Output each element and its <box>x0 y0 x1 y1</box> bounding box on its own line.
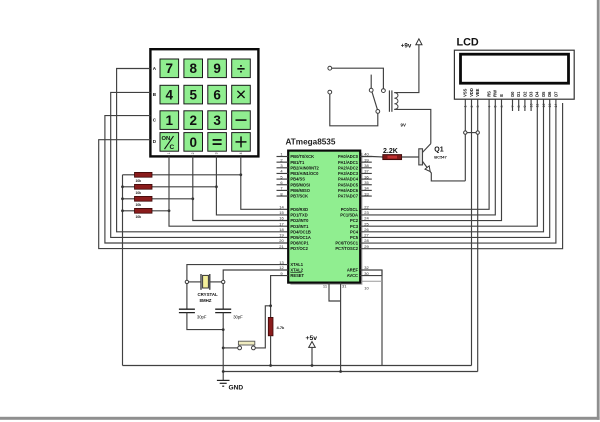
svg-text:10: 10 <box>364 286 369 291</box>
svg-text:RS: RS <box>487 91 492 97</box>
svg-text:38: 38 <box>364 163 369 168</box>
svg-text:VDD: VDD <box>469 88 474 97</box>
svg-text:15: 15 <box>279 210 284 215</box>
svg-text:21: 21 <box>279 244 284 249</box>
svg-text:30pF: 30pF <box>197 314 207 319</box>
svg-text:AVCC: AVCC <box>347 273 358 278</box>
svg-text:7: 7 <box>166 61 174 76</box>
svg-text:PD7/OC2: PD7/OC2 <box>290 246 308 251</box>
svg-text:PA0/ADC0: PA0/ADC0 <box>338 154 359 159</box>
svg-text:4.7k: 4.7k <box>277 325 286 330</box>
svg-text:30pF: 30pF <box>233 314 243 319</box>
svg-text:VEE: VEE <box>475 88 480 96</box>
svg-text:PB2/AIN0/INT2: PB2/AIN0/INT2 <box>290 165 319 170</box>
svg-text:÷: ÷ <box>237 61 245 77</box>
svg-text:PA6/ADC6: PA6/ADC6 <box>338 188 359 193</box>
svg-text:9V: 9V <box>401 122 406 127</box>
svg-text:+5v: +5v <box>306 335 318 342</box>
svg-text:PC6/TOSC1: PC6/TOSC1 <box>335 241 358 246</box>
svg-text:2: 2 <box>191 152 195 154</box>
svg-text:3: 3 <box>213 113 221 128</box>
svg-text:D5: D5 <box>541 91 546 97</box>
svg-text:1: 1 <box>166 113 174 128</box>
svg-text:XTAL1: XTAL1 <box>290 262 303 267</box>
svg-text:D4: D4 <box>535 91 540 97</box>
svg-text:D6: D6 <box>547 91 552 97</box>
svg-text:XTAL2: XTAL2 <box>290 268 303 273</box>
svg-text:✕: ✕ <box>235 87 247 103</box>
svg-text:18: 18 <box>279 227 284 232</box>
svg-text:PD0/RXD: PD0/RXD <box>290 207 308 212</box>
svg-text:GND: GND <box>229 384 244 391</box>
svg-text:PC4: PC4 <box>350 229 359 234</box>
svg-text:2: 2 <box>189 113 197 128</box>
svg-text:10k: 10k <box>136 179 142 183</box>
svg-text:PB3/AIN1/OC0: PB3/AIN1/OC0 <box>290 171 319 176</box>
svg-text:36: 36 <box>364 174 369 179</box>
svg-text:PA3/ADC3: PA3/ADC3 <box>338 171 359 176</box>
svg-text:39: 39 <box>364 157 369 162</box>
svg-text:LCD: LCD <box>457 36 479 48</box>
svg-text:PD2/INT0: PD2/INT0 <box>290 218 309 223</box>
svg-text:PA5/ADC5: PA5/ADC5 <box>338 182 359 187</box>
svg-text:PC5: PC5 <box>350 235 359 240</box>
svg-text:PB6/MISO: PB6/MISO <box>290 188 310 193</box>
svg-text:6: 6 <box>213 88 221 103</box>
svg-text:D2: D2 <box>522 91 527 97</box>
svg-text:PA2/ADC2: PA2/ADC2 <box>338 165 359 170</box>
svg-text:37: 37 <box>364 169 369 174</box>
svg-text:5: 5 <box>189 88 197 103</box>
svg-text:PD3/INT1: PD3/INT1 <box>290 224 309 229</box>
svg-text:D1: D1 <box>516 91 521 97</box>
svg-text:10k: 10k <box>136 191 142 195</box>
svg-text:PC1/SDA: PC1/SDA <box>340 213 358 218</box>
svg-text:3: 3 <box>215 152 219 154</box>
svg-text:PC0/SCL: PC0/SCL <box>341 207 359 212</box>
svg-text:RW: RW <box>493 90 498 97</box>
svg-text:RESET: RESET <box>290 273 304 278</box>
svg-text:PB5/MOSI: PB5/MOSI <box>290 182 310 187</box>
svg-text:17: 17 <box>279 221 284 226</box>
svg-text:PB7/SCK: PB7/SCK <box>290 194 308 199</box>
svg-text:PA7/ADC7: PA7/ADC7 <box>338 194 359 199</box>
svg-text:CRYSTAL: CRYSTAL <box>198 292 219 297</box>
svg-text:4: 4 <box>166 88 174 103</box>
svg-text:PC7/TOSC2: PC7/TOSC2 <box>335 246 358 251</box>
svg-text:ON: ON <box>162 136 171 142</box>
svg-text:10k: 10k <box>136 215 142 219</box>
svg-text:BC547: BC547 <box>434 155 447 160</box>
svg-text:AREF: AREF <box>347 268 359 273</box>
svg-text:14: 14 <box>279 205 284 210</box>
svg-text:20: 20 <box>279 238 284 243</box>
svg-text:9: 9 <box>213 61 221 76</box>
svg-text:PC3: PC3 <box>350 224 359 229</box>
svg-text:PA1/ADC1: PA1/ADC1 <box>338 160 359 165</box>
svg-text:PB4/SS: PB4/SS <box>290 177 305 182</box>
svg-text:Q1: Q1 <box>434 147 443 154</box>
svg-text:PA4/ADC4: PA4/ADC4 <box>338 177 359 182</box>
svg-text:8: 8 <box>189 61 197 76</box>
svg-text:33: 33 <box>364 191 369 196</box>
svg-text:C: C <box>170 144 175 151</box>
svg-text:PD4/OC1B: PD4/OC1B <box>290 229 311 234</box>
svg-text:0: 0 <box>189 135 197 150</box>
svg-text:PC2: PC2 <box>350 218 359 223</box>
svg-text:34: 34 <box>364 186 369 191</box>
svg-text:E: E <box>499 94 504 97</box>
svg-text:D0: D0 <box>510 91 515 97</box>
svg-text:4: 4 <box>239 152 243 154</box>
svg-text:PD6/ICP1: PD6/ICP1 <box>290 241 309 246</box>
svg-text:PD5/OC1A: PD5/OC1A <box>290 235 311 240</box>
svg-text:31: 31 <box>342 284 347 289</box>
svg-text:2.2K: 2.2K <box>383 148 398 155</box>
svg-text:PB0/T0/XCK: PB0/T0/XCK <box>290 154 314 159</box>
svg-text:D3: D3 <box>529 91 534 97</box>
svg-text:1: 1 <box>167 152 171 154</box>
svg-text:16: 16 <box>279 216 284 221</box>
svg-text:ATmega8535: ATmega8535 <box>286 138 336 147</box>
svg-text:19: 19 <box>279 233 284 238</box>
svg-text:35: 35 <box>364 180 369 185</box>
svg-text:D7: D7 <box>553 91 558 97</box>
svg-text:PB1/T1: PB1/T1 <box>290 160 305 165</box>
svg-text:PD1/TXD: PD1/TXD <box>290 213 307 218</box>
svg-text:VSS: VSS <box>463 88 468 96</box>
svg-text:10k: 10k <box>136 203 142 207</box>
svg-text:+9v: +9v <box>401 43 412 50</box>
svg-text:8MHZ: 8MHZ <box>200 298 212 303</box>
